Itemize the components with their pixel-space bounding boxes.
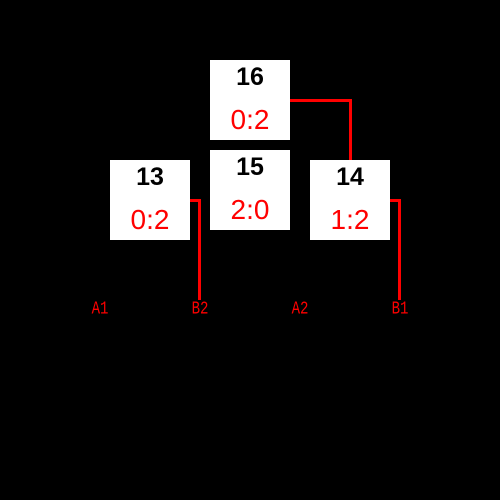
node label A2 xyxy=(292,303,309,316)
node label A1 xyxy=(92,303,109,316)
wire 14-B1 vertical xyxy=(398,199,401,300)
wire 16-14 horizontal xyxy=(290,99,352,102)
match box 16 xyxy=(210,60,290,140)
match box 15 xyxy=(210,150,290,230)
wire 13-B2 horizontal xyxy=(190,199,201,202)
match box 14 xyxy=(310,160,390,240)
wire 16-14 vertical xyxy=(349,99,352,160)
wire 14-B1 horizontal xyxy=(390,199,401,202)
node label B2 xyxy=(192,303,209,316)
node label B1 xyxy=(392,303,409,316)
match box 13 xyxy=(110,160,190,240)
wire 13-B2 vertical xyxy=(198,199,201,300)
